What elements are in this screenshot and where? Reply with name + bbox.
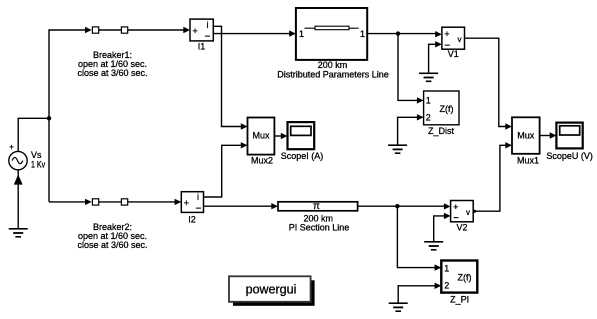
svg-text:PI Section Line: PI Section Line bbox=[289, 223, 350, 233]
svg-text:Z(f): Z(f) bbox=[440, 104, 454, 114]
svg-text:+: + bbox=[453, 202, 458, 212]
svg-text:Mux2: Mux2 bbox=[251, 156, 273, 166]
svg-text:V1: V1 bbox=[448, 49, 459, 59]
svg-text:1 Kv: 1 Kv bbox=[31, 160, 46, 170]
svg-text:ScopeI (A): ScopeI (A) bbox=[281, 151, 324, 161]
svg-text:i: i bbox=[207, 20, 209, 30]
svg-text:powergui: powergui bbox=[246, 282, 297, 296]
svg-text:Mux: Mux bbox=[517, 131, 535, 141]
svg-text:−: − bbox=[205, 32, 211, 43]
svg-text:2: 2 bbox=[444, 281, 449, 291]
svg-text:1: 1 bbox=[444, 263, 449, 273]
svg-text:Distributed Parameters Line: Distributed Parameters Line bbox=[277, 70, 389, 80]
svg-text:−: − bbox=[196, 204, 202, 215]
svg-text:close at 3/60 sec.: close at 3/60 sec. bbox=[77, 68, 147, 78]
svg-text:Vs: Vs bbox=[31, 150, 42, 160]
svg-text:Z(f): Z(f) bbox=[458, 272, 472, 282]
svg-text:Z_PI: Z_PI bbox=[450, 295, 469, 305]
svg-text:+: + bbox=[184, 198, 189, 208]
svg-text:V2: V2 bbox=[456, 223, 467, 233]
svg-text:close at 3/60 sec.: close at 3/60 sec. bbox=[77, 240, 147, 250]
svg-text:1: 1 bbox=[360, 29, 365, 39]
svg-text:+: + bbox=[193, 26, 198, 36]
svg-text:1: 1 bbox=[299, 29, 304, 39]
svg-text:I1: I1 bbox=[198, 42, 206, 52]
svg-text:+: + bbox=[444, 29, 449, 39]
svg-text:Z_Dist: Z_Dist bbox=[428, 126, 455, 136]
svg-text:200 km: 200 km bbox=[318, 60, 348, 70]
svg-text:i: i bbox=[197, 192, 199, 202]
svg-text:π: π bbox=[313, 201, 320, 212]
svg-text:1: 1 bbox=[426, 95, 431, 105]
svg-text:+: + bbox=[9, 143, 14, 152]
svg-text:2: 2 bbox=[426, 113, 431, 123]
svg-text:Mux: Mux bbox=[252, 131, 270, 141]
svg-text:ScopeU (V): ScopeU (V) bbox=[546, 151, 593, 161]
svg-text:v: v bbox=[458, 35, 462, 44]
svg-text:I2: I2 bbox=[188, 215, 196, 225]
svg-text:v: v bbox=[466, 208, 470, 217]
svg-text:Mux1: Mux1 bbox=[517, 156, 539, 166]
